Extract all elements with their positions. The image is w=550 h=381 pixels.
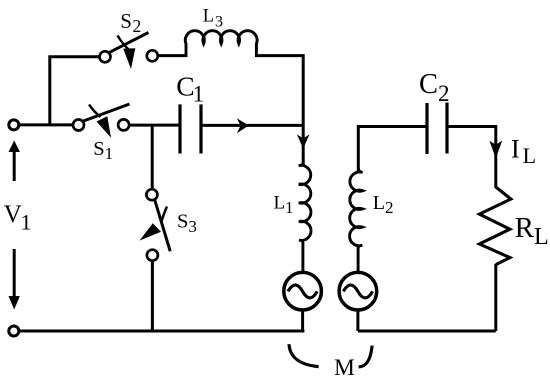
- capacitor C1: [180, 104, 201, 153]
- current arrow IL down: [489, 141, 502, 159]
- wire source L1 to rail: [301, 310, 304, 331]
- wire source L2 to rail: [356, 310, 359, 331]
- resistor RL: [479, 187, 511, 265]
- mutual coupling M arc right: [359, 346, 373, 367]
- inductor L3: [185, 31, 257, 57]
- svg-text:V1: V1: [4, 201, 32, 235]
- wire top-left horizontal: [19, 123, 74, 126]
- mutual coupling M arc left: [289, 344, 319, 366]
- svg-text:C2: C2: [419, 69, 450, 106]
- switch S3: [140, 189, 171, 261]
- ac source left (primary): [284, 272, 322, 310]
- current arrow right after C1: [237, 118, 249, 133]
- svg-text:S2: S2: [120, 9, 141, 36]
- inductor L1: [299, 162, 311, 273]
- svg-text:IL: IL: [511, 135, 536, 169]
- svg-text:L2: L2: [373, 192, 394, 217]
- wire S1 to C1: [130, 124, 179, 127]
- wire from S2 to L3: [157, 54, 187, 57]
- bottom rail right: [358, 330, 496, 333]
- terminal top-left: [9, 120, 19, 130]
- svg-text:RL: RL: [515, 212, 549, 250]
- wire S3 down to bottom rail: [151, 260, 154, 331]
- arrow V1 up: [9, 141, 20, 182]
- wire C1 to node: [201, 124, 304, 127]
- svg-text:L3: L3: [203, 6, 223, 30]
- ac source right (secondary): [339, 272, 377, 310]
- wire branch vertical to S2 row: [48, 56, 51, 125]
- svg-text:S1: S1: [93, 138, 113, 163]
- wire right circuit top left vertical: [358, 127, 427, 173]
- svg-text:L1: L1: [274, 193, 294, 217]
- wire RL down: [494, 264, 497, 331]
- wire C2 to right corner and down: [447, 127, 496, 189]
- terminal bottom-left: [9, 326, 19, 336]
- svg-text:M: M: [334, 355, 355, 381]
- svg-text:S3: S3: [177, 210, 197, 236]
- wire from L3 to top-right corner: [255, 56, 303, 167]
- bottom rail left: [19, 330, 305, 333]
- switch S1: [73, 104, 130, 138]
- current arrow down into L1: [297, 134, 310, 148]
- capacitor C2: [427, 103, 447, 155]
- svg-text:C1: C1: [176, 70, 204, 106]
- inductor L2: [350, 168, 363, 273]
- arrow V1 down: [9, 249, 20, 310]
- wire S2 row left: [49, 55, 101, 58]
- wire junction down to S3: [151, 125, 154, 190]
- switch S2: [100, 33, 158, 70]
